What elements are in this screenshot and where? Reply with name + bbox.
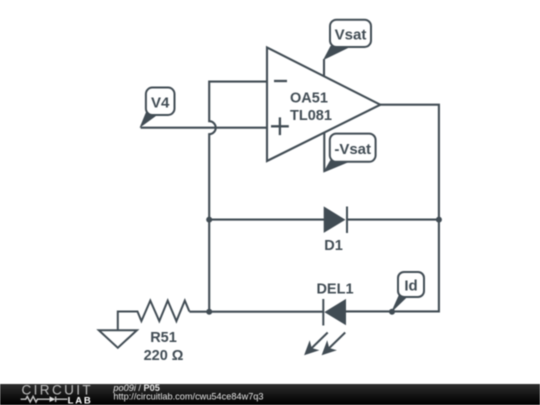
wire bottom row (LED cathode to resistor) — [189, 311, 323, 313]
ground — [99, 330, 137, 348]
op-amp plus symbol — [271, 117, 289, 135]
junction dot node middle-right — [436, 217, 442, 223]
svg-text:TL081: TL081 — [290, 108, 332, 124]
wire op-amp output to right rail and bottom row — [346, 105, 439, 312]
resistor R51 — [118, 301, 190, 364]
footer bar — [0, 382, 540, 405]
wire middle row left (node to diode anode) — [209, 219, 324, 221]
flag V4 — [141, 88, 175, 127]
svg-text:LAB: LAB — [68, 395, 93, 405]
LED DEL1 — [304, 282, 353, 356]
wire inverting-input feedback (horizontal to op-amp minus, vertical down with hop) — [209, 82, 267, 312]
junction dot node bottom-left — [206, 309, 212, 315]
wire non-inverting input from V4 — [141, 127, 267, 129]
svg-text:220 Ω: 220 Ω — [144, 348, 184, 364]
flag -Vsat — [324, 134, 375, 172]
op-amp minus symbol — [274, 80, 287, 82]
svg-text:-Vsat: -Vsat — [334, 141, 371, 158]
svg-text:V4: V4 — [151, 95, 170, 112]
svg-text:Id: Id — [404, 277, 417, 294]
svg-text:D1: D1 — [324, 238, 343, 254]
wire V- power pin — [323, 133, 325, 172]
wire middle row right (diode cathode to right rail) — [347, 219, 439, 221]
wire V+ power pin — [323, 59, 325, 76]
svg-text:DEL1: DEL1 — [316, 282, 353, 298]
svg-text:Vsat: Vsat — [335, 27, 367, 44]
junction dot node Id probe — [389, 309, 395, 315]
op-amp OA51 triangle — [267, 48, 380, 162]
junction dot node middle-left — [206, 217, 212, 223]
flag Vsat — [324, 20, 371, 59]
svg-text:http://circuitlab.com/cwu54ce8: http://circuitlab.com/cwu54ce84w7q3 — [113, 392, 263, 402]
flag Id — [392, 272, 424, 311]
diode D1 — [324, 207, 347, 255]
svg-text:OA51: OA51 — [290, 91, 328, 107]
svg-text:R51: R51 — [150, 330, 177, 346]
logo squiggle resistor + diode — [21, 396, 50, 402]
